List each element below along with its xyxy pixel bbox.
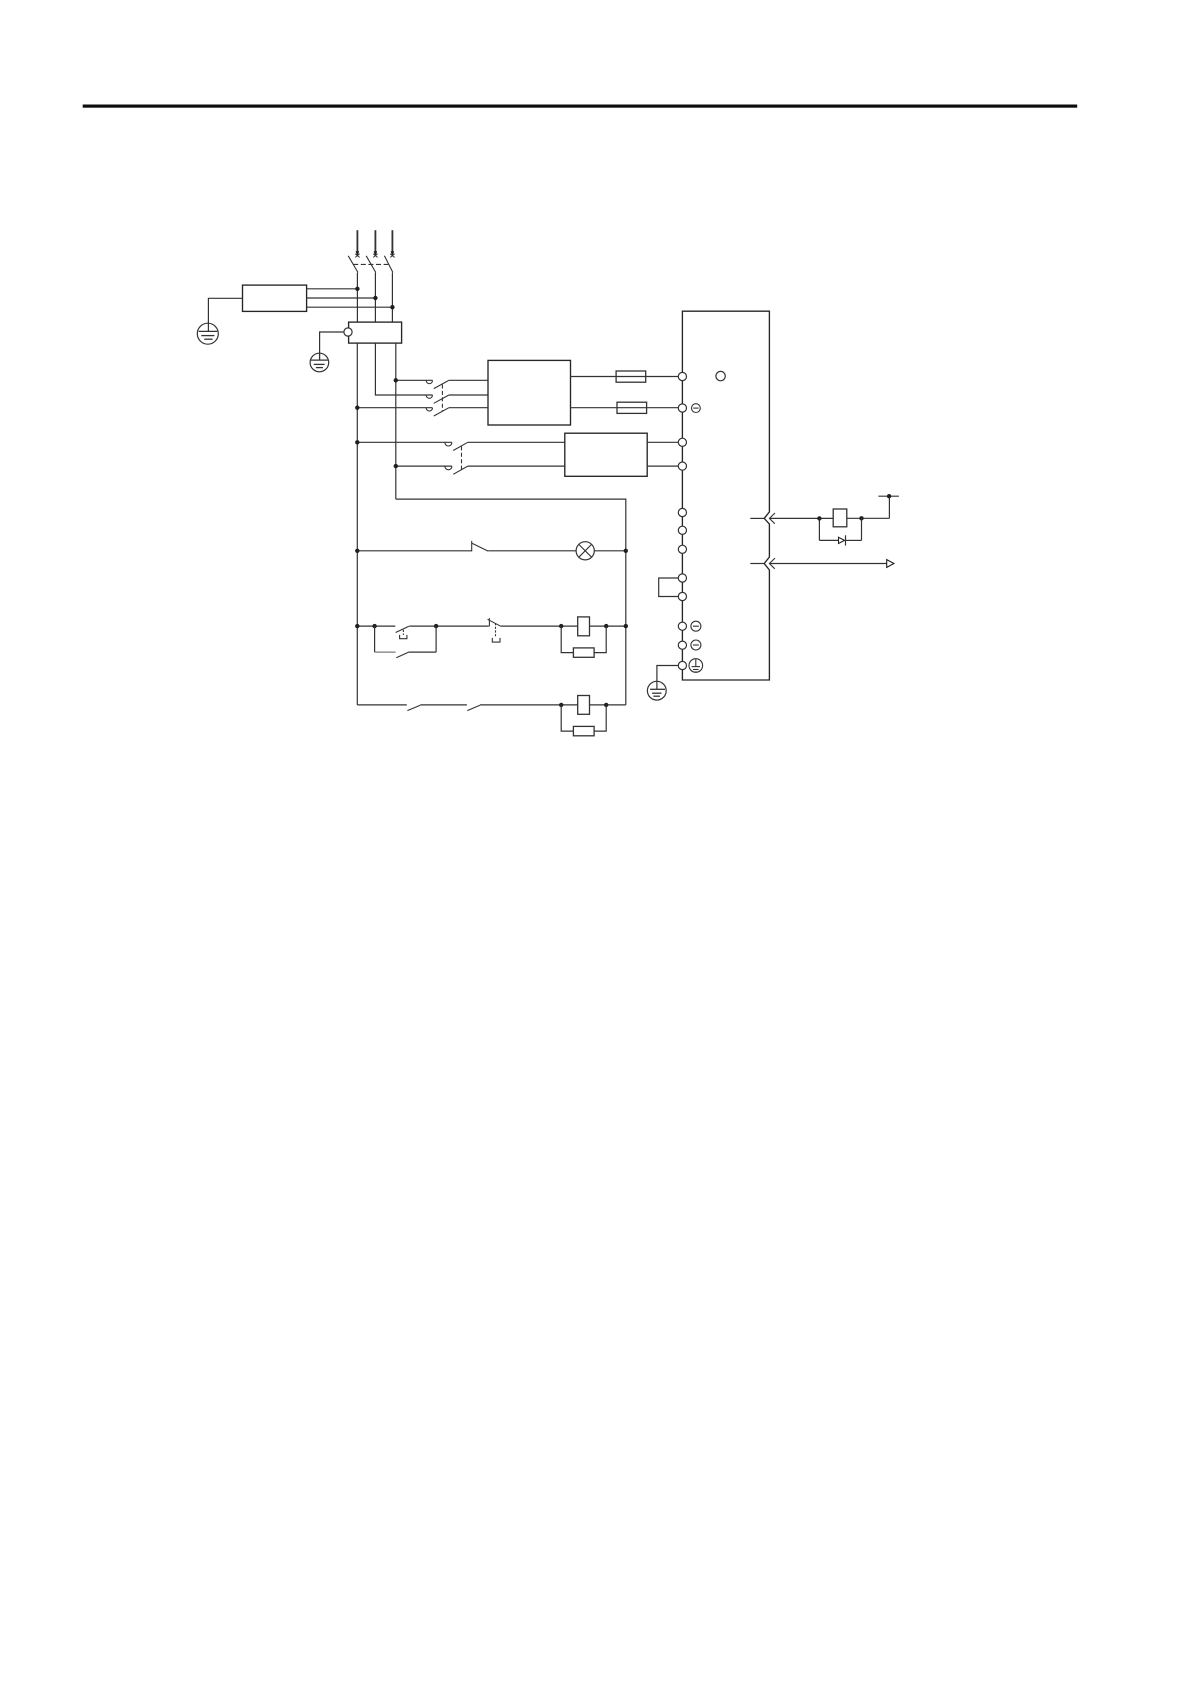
wire phase R breaker to contactor: [356, 273, 358, 323]
wire box1 output 1: [571, 376, 679, 378]
wire pole1 to box1: [449, 379, 488, 381]
node coil right junction: [604, 624, 608, 628]
wire drive ground lead: [657, 666, 679, 690]
pushbutton 1PB stop knob: [400, 635, 407, 639]
indicator lamp 1PL: [576, 542, 594, 560]
terminal L1C circle: [678, 438, 686, 446]
holding branch lower wire right: [408, 651, 436, 653]
terminal PE circle: [678, 661, 686, 669]
node right bus lamp row: [624, 549, 628, 553]
wire contactor ground lead: [320, 332, 344, 353]
holding contact blade: [396, 652, 408, 658]
wire contact to lamp: [488, 550, 576, 552]
header rule: [83, 105, 1077, 108]
pushbutton 2PB start tick: [488, 618, 490, 626]
wire lamp to right bus: [594, 550, 626, 552]
wire filter output 3: [307, 306, 393, 308]
terminal U circle: [678, 574, 686, 582]
wire pole2 to box1: [449, 394, 488, 396]
wire between interlock contacts: [420, 704, 467, 706]
node L3 row1 junction: [394, 378, 398, 382]
lamp row: wire from left bus: [357, 550, 472, 552]
circuit breaker 1QF trip link (dashed): [353, 263, 388, 265]
contact pole B blade: [453, 466, 468, 474]
pushbutton 2PB start actuator (dashed): [495, 623, 497, 638]
contact 1KM pole2 fixed arc: [426, 395, 432, 398]
node branch right junction: [434, 624, 438, 628]
holding branch left drop: [374, 626, 376, 652]
contact 1Ry NC tick: [471, 541, 473, 551]
node filter-T junction: [390, 305, 394, 309]
terminal B3 circle: [678, 545, 686, 553]
surge absorber 2SA loop left: [561, 705, 573, 731]
node relay left junction: [817, 516, 821, 520]
contact 1KM aux pole B: wire from L3: [396, 465, 452, 467]
contact pole B fixed arc: [445, 466, 452, 470]
minus mark at terminal W: [691, 621, 701, 631]
wire diode branch bottom left: [819, 539, 838, 541]
contactor coil 1KM: [578, 617, 590, 636]
contact 1KM pole1 fixed arc: [426, 381, 432, 384]
connector CN2 chevron: [769, 513, 775, 524]
supply line T arrow: [390, 230, 394, 257]
supply line R arrow: [355, 230, 359, 257]
arrow to host controller (open triangle): [887, 560, 894, 568]
holding branch right riser: [435, 626, 437, 652]
contact 1KM 3-pole link (dashed): [441, 385, 443, 412]
terminal V circle: [678, 592, 686, 600]
charge lamp circle: [716, 371, 725, 380]
surge absorber 2SA body: [573, 726, 594, 735]
wire +24V riser: [888, 496, 890, 518]
wire filter output 1: [307, 288, 358, 290]
wire bottom coil to right bus: [590, 704, 626, 706]
control power supply box2: [565, 433, 647, 476]
wire to brake relay coil: [480, 704, 578, 706]
brake relay coil: [578, 696, 590, 715]
bottom row: wire from left bus: [357, 704, 407, 706]
contact 1KM pole1 blade: [434, 380, 449, 388]
wire left bus L1 (vertical): [356, 343, 358, 705]
node L3 rowB junction: [394, 464, 398, 468]
wire relay to +24V riser: [847, 517, 890, 519]
pushbutton 1PB stop blade: [396, 626, 409, 632]
relay coil 1Ry: [833, 509, 847, 527]
relay row: wire from left bus: [357, 625, 395, 627]
minus mark at terminal L2: [692, 404, 701, 413]
diode 1D cathode bar: [845, 535, 847, 545]
wire pole B to box2: [468, 465, 565, 467]
wire filter output 2: [307, 297, 376, 299]
connector CN1 chevron: [769, 558, 775, 569]
wire CN1 to host controller: [769, 563, 886, 565]
node bottom coil left junction: [559, 703, 563, 707]
pushbutton 2PB start knob: [492, 638, 500, 642]
terminal W circle: [678, 622, 686, 630]
wire box1 output 2: [571, 407, 679, 409]
wire phase T breaker to contactor: [391, 273, 393, 323]
fuse F1: [616, 371, 646, 382]
noise filter 1FLT box: [243, 285, 307, 311]
node +24V junction: [887, 494, 891, 498]
contact 1KM pole3: wire from L1: [357, 407, 432, 409]
surge absorber 1SA loop: [561, 626, 573, 653]
protective earth mark beside terminal PE: [689, 659, 703, 673]
terminal B2 circle: [678, 526, 686, 534]
contact 1Ry NC blade: [472, 543, 488, 551]
node L1 row3 junction: [355, 406, 359, 410]
wire diode branch bottom right: [846, 539, 862, 541]
contact aux link (dashed): [461, 446, 463, 470]
contact pole A blade: [453, 442, 468, 450]
power supply unit box1: [488, 360, 571, 425]
terminal B1 circle: [678, 508, 686, 516]
interlock contact 1 blade: [407, 705, 420, 710]
node coil left junction: [559, 624, 563, 628]
ground symbol G1 (filter): [197, 323, 218, 344]
contact 1KM pole3 fixed arc: [426, 408, 432, 411]
contactor ground terminal circle: [344, 328, 352, 336]
pushbutton 2PB start blade: [488, 619, 501, 626]
holding branch lower wire left: [375, 651, 396, 653]
wire box2 output 2: [647, 465, 678, 467]
node filter-R junction: [355, 287, 359, 291]
contact 1KM pole1: wire from L3: [396, 379, 433, 381]
wire box2 output 1: [647, 441, 678, 443]
node left bus lamp row: [355, 549, 359, 553]
wire stop to start: [409, 625, 489, 627]
terminal L2C circle: [678, 462, 686, 470]
wire L3 vertical below contactor: [395, 343, 397, 499]
diode 1D triangle: [839, 537, 845, 543]
wire filter ground lead: [208, 298, 242, 331]
surge absorber 2SA loop right: [594, 705, 606, 731]
wire pole A to box2: [468, 441, 565, 443]
interlock contact 2 blade: [467, 705, 480, 710]
circuit breaker 1QF pole 1 blade: [348, 256, 358, 273]
wire diode branch left: [818, 518, 820, 540]
circuit breaker 1QF pole 2 blade: [366, 256, 376, 273]
circuit breaker 1QF pole 3 blade: [384, 256, 393, 273]
wire L3 to right control bus: [396, 499, 626, 705]
contact pole A fixed arc: [445, 443, 452, 447]
node filter-S junction: [373, 296, 377, 300]
surge absorber 1SA body: [573, 648, 594, 657]
surge absorber 1SA loop right: [594, 626, 606, 653]
wire L2 vertical below contactor: [375, 343, 432, 395]
wire CN2 to relay 1Ry: [769, 517, 833, 519]
node branch left junction: [372, 624, 376, 628]
terminal L1 circle: [678, 372, 686, 380]
supply line S arrow: [373, 230, 377, 257]
wire start to contactor coil: [501, 625, 578, 627]
node L1 rowA junction: [355, 440, 359, 444]
connector CN2 internal stub: [750, 517, 764, 519]
contact 1KM pole3 blade: [434, 408, 449, 416]
terminal 11 circle: [678, 641, 686, 649]
node right bus relay row: [624, 624, 628, 628]
terminal L2 circle: [678, 404, 686, 412]
fuse F2: [617, 402, 647, 413]
contact 1KM pole2 blade: [434, 395, 449, 403]
pushbutton 1PB stop actuator (dashed): [402, 630, 404, 635]
magnetic contactor 1KM box: [349, 322, 402, 343]
wire pole3 to box1: [449, 407, 488, 409]
+24V supply bar: [878, 495, 899, 497]
wire coil to right bus: [590, 625, 626, 627]
wire phase S breaker to contactor: [374, 273, 376, 323]
contact 1KM aux pole A: wire from L1: [357, 441, 452, 443]
connector CN1 internal stub: [750, 563, 764, 565]
node relay right junction: [859, 516, 863, 520]
minus mark at terminal 11: [691, 640, 701, 650]
node left bus relay row: [355, 624, 359, 628]
jumper bracket terminals U-V: [659, 578, 679, 597]
servo amplifier main box: [682, 311, 769, 680]
wire diode branch right: [861, 518, 863, 540]
ground symbol G2 (contactor): [310, 353, 329, 372]
ground symbol G3 (drive): [647, 681, 666, 700]
node bottom coil right junction: [604, 703, 608, 707]
